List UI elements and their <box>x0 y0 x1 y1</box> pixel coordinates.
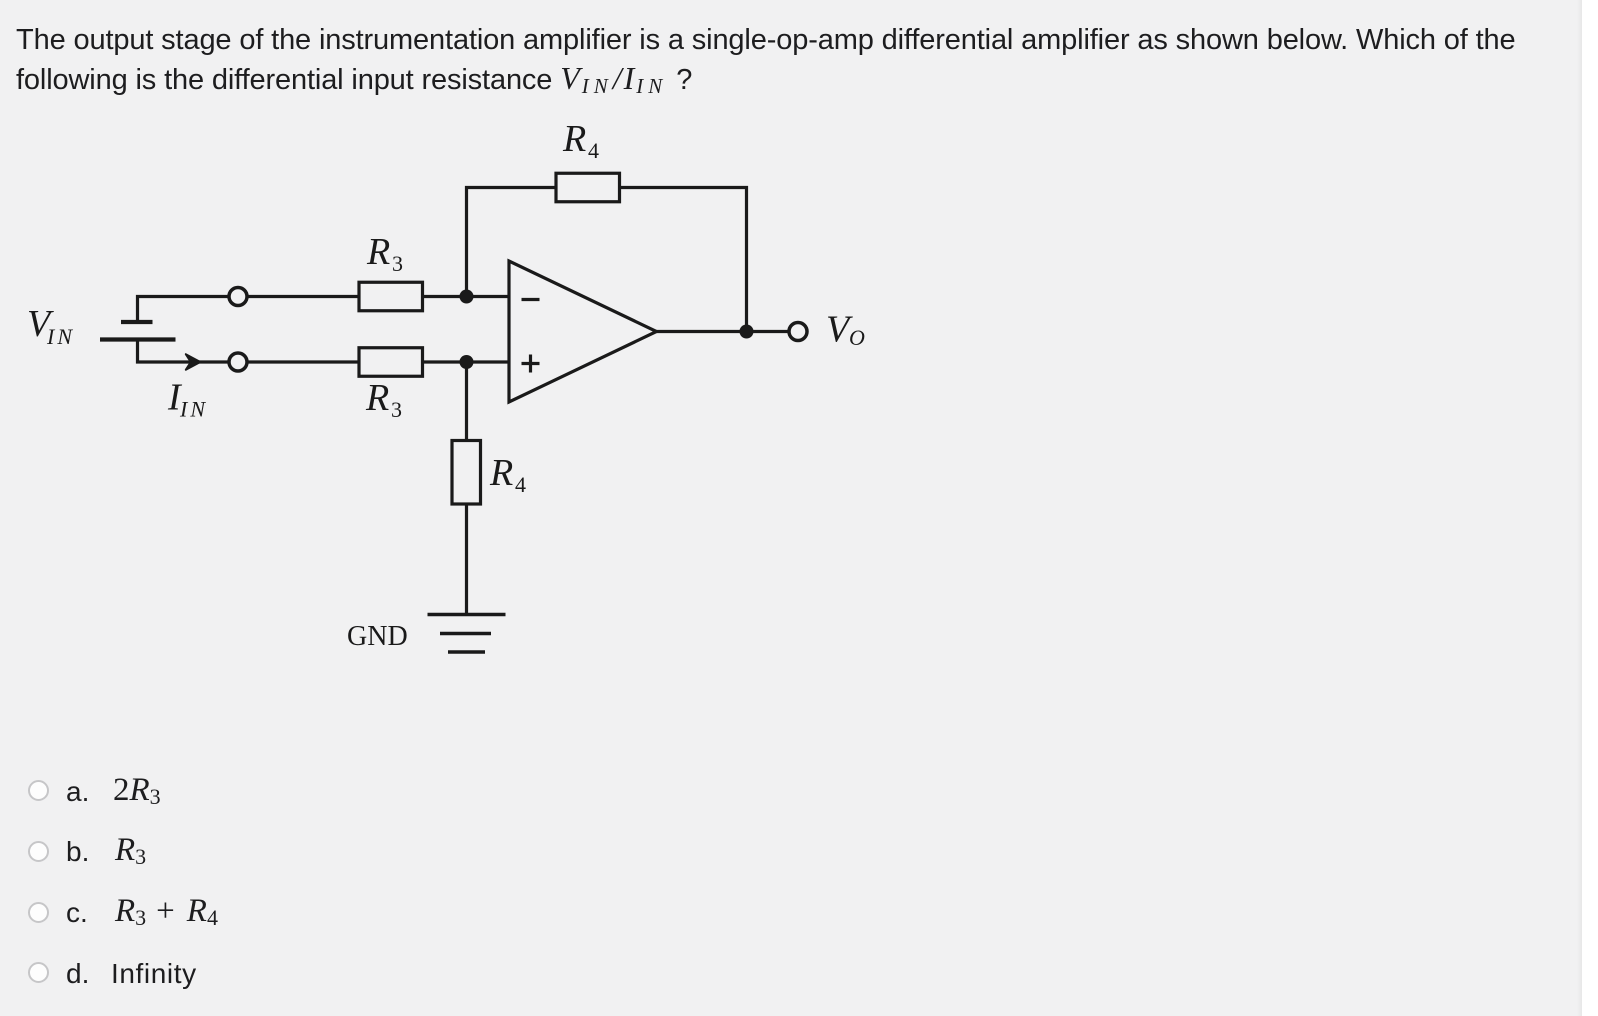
node: output junction <box>740 325 754 339</box>
svg-text:R: R <box>365 377 389 419</box>
option b radio <box>28 841 49 862</box>
resistor R4 (to ground) <box>452 441 481 505</box>
terminal (open circle) top input <box>229 288 247 306</box>
option b label <box>66 836 89 868</box>
battery long plate <box>100 337 176 341</box>
option d radio <box>28 962 49 983</box>
svg-text:IN: IN <box>46 324 75 349</box>
label R4 ground leg <box>489 452 526 497</box>
label Vo <box>826 309 865 351</box>
wire: R3 bottom to op-amp non-inverting input <box>423 360 510 363</box>
svg-text:4: 4 <box>588 138 599 163</box>
question text line 1 <box>16 21 1516 105</box>
resistor R3 (top) <box>359 282 423 311</box>
terminal (open circle) output Vo <box>789 323 807 341</box>
ground <box>428 615 506 653</box>
battery short plate <box>121 320 153 324</box>
current arrow IIN <box>186 354 201 370</box>
resistor R3 (bottom) <box>359 348 423 377</box>
svg-text:R: R <box>366 231 390 273</box>
wire: op-amp output to Vo terminal <box>657 330 790 333</box>
label R3 top <box>366 231 403 276</box>
wire: top terminal to R3 <box>247 295 360 298</box>
svg-text:IN: IN <box>179 397 208 422</box>
resistor R4 (feedback) <box>556 173 620 202</box>
option a value <box>113 772 161 809</box>
option d value <box>111 958 197 990</box>
label GND <box>347 621 408 652</box>
svg-text:4: 4 <box>515 472 526 497</box>
wire: bottom lead from battery to bottom wire <box>138 340 230 363</box>
wire: top lead from battery to top terminal <box>138 297 230 323</box>
option a radio <box>28 780 49 801</box>
label R4 feedback <box>562 118 599 163</box>
svg-text:3: 3 <box>392 251 403 276</box>
option c label <box>66 897 88 929</box>
option d label <box>66 958 89 990</box>
option c value <box>115 893 218 930</box>
wire: feedback from inverting node up and right to R4 <box>467 188 557 297</box>
svg-text:R: R <box>489 452 513 494</box>
terminal (open circle) bottom input <box>229 353 247 371</box>
svg-text:R: R <box>562 118 586 160</box>
option b value <box>115 832 146 869</box>
wire: non-inverting node down to R4 <box>465 362 468 441</box>
label VIN <box>27 303 75 349</box>
label IIN <box>167 377 208 422</box>
op-amp minus sign <box>522 298 540 301</box>
svg-text:GND: GND <box>347 621 408 652</box>
node: inverting input junction <box>460 290 474 304</box>
wire: bottom terminal to R3 <box>247 360 360 363</box>
option c radio <box>28 902 49 923</box>
option a label <box>66 776 89 808</box>
svg-text:3: 3 <box>391 397 402 422</box>
wire: R4 to ground <box>465 504 468 615</box>
label R3 bottom <box>365 377 402 422</box>
wire: R3 top to op-amp inverting input <box>423 295 510 298</box>
wire: R4 to output node <box>620 188 747 332</box>
voltage source VIN battery <box>100 297 230 363</box>
op-amp plus sign <box>522 355 540 373</box>
node: non-inverting input junction <box>460 355 474 369</box>
svg-text:O: O <box>849 325 865 350</box>
op-amp U1 <box>509 261 657 402</box>
circuit schematic <box>0 0 900 700</box>
